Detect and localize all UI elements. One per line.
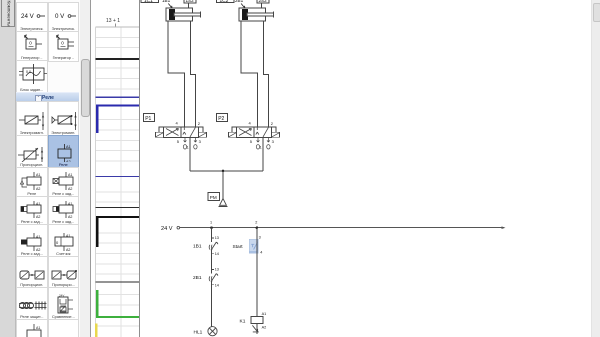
palette item: proportional solenoid xyxy=(16,135,48,169)
palette item: partial row (cut off) left xyxy=(16,319,48,337)
palette item: solenoid valve coil xyxy=(16,101,48,137)
exhaust silencer port 5 xyxy=(184,137,187,142)
left panel tab "Компоненты" xyxy=(1,0,15,27)
svg-text:0.0: 0.0 xyxy=(26,70,31,74)
svg-text:1S2: 1S2 xyxy=(186,0,195,3)
svg-text:A1: A1 xyxy=(68,173,72,177)
svg-text:1B1: 1B1 xyxy=(162,0,171,3)
24V supply rail xyxy=(161,226,506,232)
exhaust silencer port 3 xyxy=(194,137,197,142)
valve P1 xyxy=(144,114,207,150)
wire cyl1 right port to valve P1 port 2 xyxy=(191,21,196,127)
svg-text:Start: Start xyxy=(233,244,244,250)
node 1 xyxy=(210,221,213,230)
wire valve P1 port 1 to manifold xyxy=(189,137,191,171)
left pilot actuator xyxy=(156,132,164,137)
svg-text:A1: A1 xyxy=(262,312,267,316)
svg-text:0: 0 xyxy=(29,41,32,46)
exhaust silencer port 5 xyxy=(257,137,260,142)
svg-text:0 V: 0 V xyxy=(55,13,65,20)
left pilot actuator xyxy=(229,132,237,137)
wire manifold to air supply xyxy=(222,171,224,199)
state diagram window (partially visible) xyxy=(90,0,140,337)
palette item: setpoint function block xyxy=(16,60,48,94)
svg-text:2: 2 xyxy=(255,221,257,225)
palette item: electrical supply 24V xyxy=(16,2,48,33)
svg-text:3: 3 xyxy=(199,139,202,144)
svg-text:0: 0 xyxy=(56,240,59,245)
svg-text:1C2: 1C2 xyxy=(220,0,229,4)
indicator lamp HL1 xyxy=(194,327,218,336)
palette item: proportional valve amplifier xyxy=(48,256,80,289)
svg-text:A1: A1 xyxy=(66,145,71,149)
junction (manifold tee) xyxy=(222,170,225,173)
svg-text:A1: A1 xyxy=(36,326,40,330)
svg-text:0: 0 xyxy=(61,41,64,46)
reed contact 2B1 xyxy=(193,268,219,288)
svg-text:24 V: 24 V xyxy=(21,13,35,20)
svg-text:14: 14 xyxy=(215,284,219,288)
svg-text:3: 3 xyxy=(259,235,261,239)
palette item: solenoid valve coil with pickup xyxy=(48,101,80,137)
palette item: generator (frequency) xyxy=(48,31,80,62)
svg-text:2B1: 2B1 xyxy=(193,275,202,281)
grid xyxy=(96,27,141,337)
palette item: protection relay xyxy=(16,287,48,321)
wire contact 2B1 to lamp HL1 xyxy=(211,282,213,327)
wire cyl2 left port to valve P2 port 4 xyxy=(241,21,257,127)
internals right chamber xyxy=(256,127,269,136)
mechanical reset symbol below K1 xyxy=(252,325,258,332)
wire node2 through Start button to relay coil K1 xyxy=(256,228,258,317)
wire contact 1B1 to contact 2B1 xyxy=(211,250,213,273)
palette item: relay (selected) xyxy=(48,135,80,169)
group header bar "Реле" xyxy=(16,92,79,103)
palette item: generator (voltage source) xyxy=(16,31,48,62)
palette item: relay delay variant B xyxy=(48,196,80,226)
right pilot actuator xyxy=(272,132,280,137)
palette item: proportional amplifier xyxy=(16,256,48,289)
palette item: counter xyxy=(48,224,80,258)
sensor marker arrow on cylinder 1 piston xyxy=(168,4,172,9)
wire cyl1 left port to valve P1 port 4 xyxy=(168,21,184,127)
svg-text:14: 14 xyxy=(215,252,219,256)
component palette panel xyxy=(15,0,80,337)
cylinder 1C2 xyxy=(239,8,273,21)
svg-text:5: 5 xyxy=(177,139,180,144)
palette item: partial row (cut off) right, empty xyxy=(48,319,80,337)
svg-text:2B1: 2B1 xyxy=(235,0,244,3)
svg-text:K1: K1 xyxy=(240,318,246,324)
trace black 1 xyxy=(96,58,141,60)
label box P2 xyxy=(217,114,228,122)
svg-text:4: 4 xyxy=(260,251,262,255)
internals right chamber xyxy=(183,127,196,136)
relay coil K1 xyxy=(240,312,267,329)
node 2 xyxy=(255,221,258,230)
svg-text:HL1: HL1 xyxy=(194,330,203,336)
svg-text:3: 3 xyxy=(272,139,275,144)
manifold wire xyxy=(190,170,263,172)
svg-text:13: 13 xyxy=(215,236,219,240)
svg-text:1C1: 1C1 xyxy=(144,0,153,4)
svg-text:4: 4 xyxy=(249,121,252,126)
svg-text:2: 2 xyxy=(198,121,201,126)
svg-text:PM: PM xyxy=(210,195,217,200)
trace blue thin 1 xyxy=(96,96,141,98)
svg-text:P1: P1 xyxy=(145,116,151,122)
wire cyl2 right port to valve P2 port 2 xyxy=(263,21,268,127)
svg-text:1B1: 1B1 xyxy=(193,243,202,249)
trace green xyxy=(97,290,140,317)
reed contact 1B1 xyxy=(193,236,219,256)
trace blue thin 2 xyxy=(96,176,141,178)
svg-text:4: 4 xyxy=(176,121,179,126)
svg-text:A2: A2 xyxy=(262,326,267,330)
axis line xyxy=(96,26,141,28)
label box 1S2 xyxy=(184,0,196,8)
svg-text:2: 2 xyxy=(271,121,274,126)
exhaust silencer port 3 xyxy=(267,137,270,142)
label box 2S2 xyxy=(257,0,269,8)
compressed air source PM xyxy=(208,193,228,207)
valve body xyxy=(164,127,199,137)
trace black thick xyxy=(97,217,140,247)
pushbutton Start (selected) xyxy=(233,235,263,254)
svg-text:2S2: 2S2 xyxy=(259,0,268,3)
trace blue thick xyxy=(97,106,140,133)
label box 1C1 xyxy=(141,0,159,4)
label box 1C2 xyxy=(217,0,235,4)
axis tick xyxy=(115,24,117,28)
label box P1 xyxy=(144,114,155,122)
wire relay coil K1 down xyxy=(256,323,258,334)
palette item: electrical supply 0V xyxy=(48,2,80,33)
palette item: comparator xyxy=(48,287,80,321)
svg-text:1: 1 xyxy=(210,221,212,225)
wire valve P2 port 1 to manifold xyxy=(262,137,264,171)
svg-text:13 + 1: 13 + 1 xyxy=(106,18,120,24)
palette item: relay delay variant C xyxy=(16,224,48,258)
svg-text:5: 5 xyxy=(250,139,253,144)
trace black 2 xyxy=(96,207,141,209)
canvas right scrollbar xyxy=(591,0,600,337)
svg-text:24 V: 24 V xyxy=(161,226,173,232)
internals left chamber (crossed) xyxy=(239,129,252,136)
svg-text:P2: P2 xyxy=(218,116,224,122)
internals left chamber (crossed) xyxy=(166,129,179,136)
valve P2 xyxy=(217,114,280,150)
palette scrollbar xyxy=(80,0,90,337)
wire node1 down to contact 1B1 xyxy=(211,228,213,242)
trace black 3 xyxy=(96,281,141,283)
svg-text:A1: A1 xyxy=(36,173,40,177)
palette item: relay with coil + contact xyxy=(16,167,48,198)
svg-text:13: 13 xyxy=(215,268,219,272)
trace yellow xyxy=(95,324,97,337)
right pilot actuator xyxy=(199,132,207,137)
palette item: relay delay variant A xyxy=(16,196,48,226)
main circuit canvas xyxy=(140,0,591,337)
sensor marker arrow on cylinder 2 piston xyxy=(241,4,245,9)
valve body xyxy=(237,127,272,137)
cylinder 1C1 xyxy=(166,8,201,21)
palette item: relay with switch-on delay xyxy=(48,167,80,198)
